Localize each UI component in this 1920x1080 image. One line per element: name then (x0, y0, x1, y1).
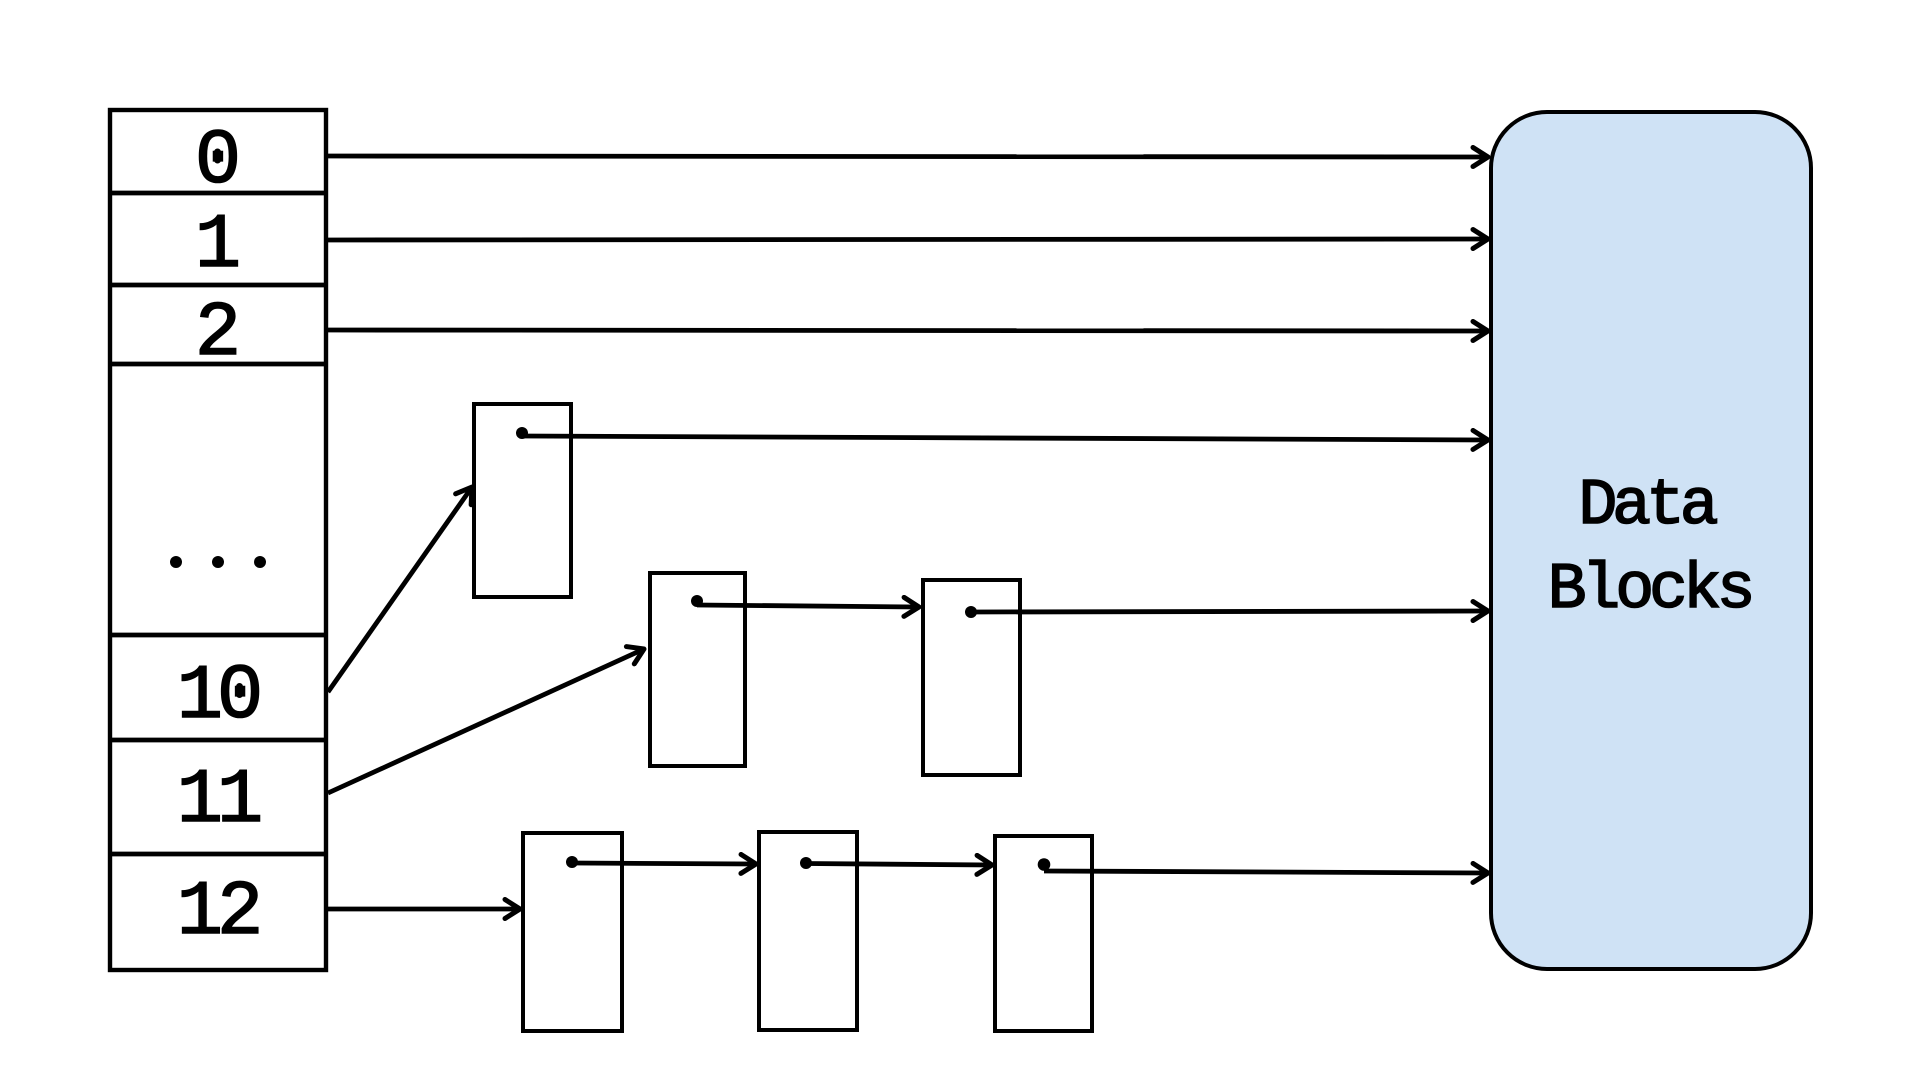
double indirect block level 2 (923, 580, 1020, 775)
arrow row 10 to single indirect block (328, 487, 472, 692)
svg-text:12: 12 (177, 870, 258, 957)
svg-text:10: 10 (177, 654, 259, 741)
arrow triple indirect level 2 to level 3 (806, 864, 992, 866)
svg-text:Blocks: Blocks (1548, 553, 1751, 627)
arrow triple indirect level 3 to data blocks (1044, 871, 1488, 873)
single indirect block (474, 404, 571, 597)
triple indirect block level 1 (523, 833, 622, 1031)
svg-text:1: 1 (195, 203, 241, 290)
ellipsis dot 1 (170, 556, 182, 568)
arrow single indirect block to data blocks (522, 436, 1488, 440)
row divider under row 0 (110, 191, 326, 196)
ellipsis dot 2 (212, 556, 224, 568)
double indirect block level 1 (650, 573, 745, 766)
arrow row 1 to data blocks (328, 239, 1488, 240)
arrow double indirect level 1 to level 2 (697, 605, 919, 607)
row divider under ellipsis row (110, 633, 326, 638)
svg-text:2: 2 (195, 291, 241, 378)
arrow row 12 to triple indirect level 1 (328, 907, 520, 912)
pointer dot in triple indirect level 2 (800, 857, 812, 869)
ellipsis dot 3 (254, 556, 266, 568)
row divider under row 2 (110, 362, 326, 367)
svg-text:Data: Data (1578, 469, 1716, 543)
data blocks container (1491, 112, 1811, 969)
triple indirect block level 2 (759, 832, 857, 1030)
arrow row 0 to data blocks (328, 156, 1488, 157)
dotted-zero slot row 10 (236, 683, 243, 698)
pointer dot in single indirect block (516, 427, 528, 439)
row divider under row 11 (110, 852, 326, 857)
arrow double indirect level 2 to data blocks (971, 611, 1488, 612)
svg-text:11: 11 (177, 758, 260, 845)
pointer dot in double indirect level 2 (965, 606, 977, 618)
dotted-zero slot row 0 (214, 149, 221, 164)
arrow triple indirect level 1 to level 2 (572, 863, 756, 864)
inode pointer table outer border (110, 110, 326, 970)
arrow row 2 to data blocks (328, 330, 1488, 331)
row divider under row 10 (110, 738, 326, 743)
pointer dot in triple indirect level 3 (1038, 858, 1051, 871)
triple indirect block level 3 (995, 836, 1092, 1031)
row divider under row 1 (110, 283, 326, 288)
pointer dot in double indirect level 1 (691, 595, 703, 607)
pointer dot in triple indirect level 1 (566, 856, 578, 868)
arrow row 11 to double indirect level 1 (328, 649, 644, 793)
